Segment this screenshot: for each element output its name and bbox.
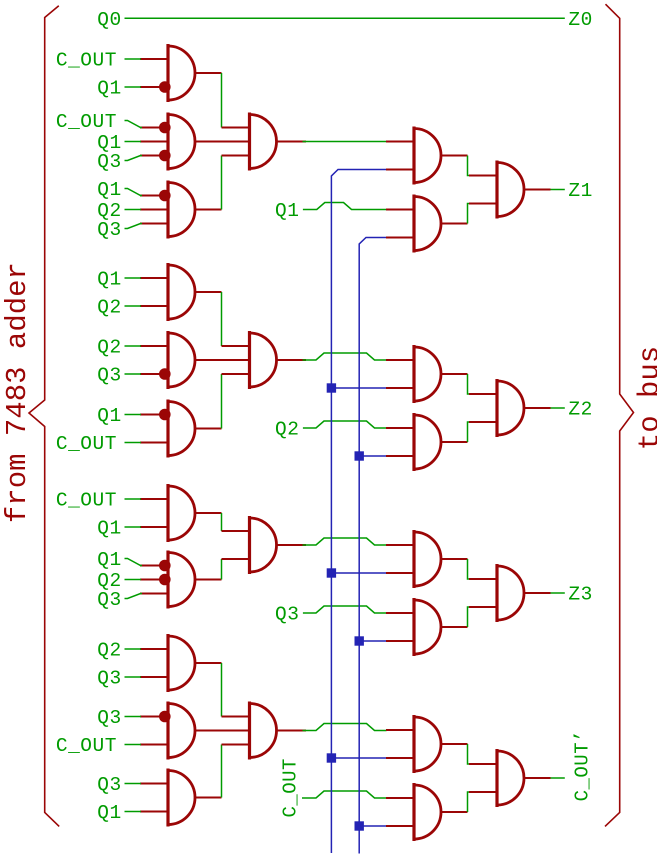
svg-text:Q2: Q2: [97, 297, 121, 319]
svg-text:Z0: Z0: [568, 9, 592, 31]
svg-text:C_OUT: C_OUT: [56, 490, 117, 512]
svg-text:Q0: Q0: [97, 9, 121, 31]
svg-text:Q1: Q1: [97, 179, 121, 201]
svg-text:Q2: Q2: [97, 337, 121, 359]
svg-text:C_OUT: C_OUT: [56, 433, 117, 455]
svg-text:Q3: Q3: [97, 668, 121, 690]
svg-text:Q2: Q2: [97, 640, 121, 662]
svg-text:Z2: Z2: [568, 399, 592, 421]
svg-text:Q1: Q1: [97, 78, 121, 100]
svg-text:C_OUT: C_OUT: [56, 735, 117, 757]
svg-text:Q3: Q3: [97, 219, 121, 241]
svg-text:from 7483 adder: from 7483 adder: [1, 262, 34, 523]
svg-text:Q3: Q3: [97, 774, 121, 796]
svg-text:Q2: Q2: [275, 419, 299, 441]
svg-text:Q1: Q1: [97, 549, 121, 571]
svg-text:Q1: Q1: [97, 269, 121, 291]
svg-text:C_OUT: C_OUT: [56, 50, 117, 72]
svg-text:to bus: to bus: [633, 346, 657, 450]
svg-text:Q1: Q1: [97, 802, 121, 824]
svg-text:Z3: Z3: [568, 584, 592, 606]
svg-text:Q3: Q3: [275, 604, 299, 626]
svg-text:Q3: Q3: [97, 707, 121, 729]
svg-text:Z1: Z1: [568, 180, 592, 202]
svg-text:Q3: Q3: [97, 151, 121, 173]
svg-text:Q3: Q3: [97, 589, 121, 611]
svg-text:C_OUT: C_OUT: [56, 111, 117, 133]
svg-text:Q1: Q1: [97, 518, 121, 540]
svg-text:Q1: Q1: [97, 405, 121, 427]
svg-text:C_OUT: C_OUT: [279, 758, 301, 818]
svg-text:Q1: Q1: [275, 200, 299, 222]
svg-text:Q3: Q3: [97, 365, 121, 387]
svg-text:C_OUT’: C_OUT’: [571, 730, 593, 801]
